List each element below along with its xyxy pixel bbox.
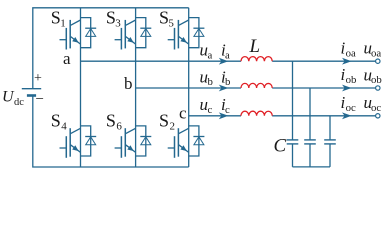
wire: capacitor neutral bus: [293, 166, 331, 168]
svg-text:oc: oc: [346, 102, 356, 114]
inductor L phase a: [241, 57, 272, 62]
wire: phase a line (right of inductor): [272, 60, 375, 62]
svg-text:S: S: [106, 110, 116, 130]
svg-text:ob: ob: [371, 74, 382, 86]
transistor S3 (IGBT): [115, 20, 136, 50]
svg-text:dc: dc: [14, 97, 24, 108]
svg-text:c: c: [179, 104, 187, 123]
transistor S6 (IGBT): [115, 128, 136, 158]
wire: inverter leg 3: [188, 8, 190, 167]
svg-text:c: c: [208, 104, 213, 116]
svg-text:a: a: [208, 49, 213, 61]
capacitor Ca: [287, 140, 299, 144]
svg-text:1: 1: [60, 17, 65, 29]
svg-text:2: 2: [170, 120, 176, 132]
svg-text:L: L: [249, 36, 261, 57]
arrow ia: [219, 58, 229, 65]
wire: capacitor Cb bottom lead: [309, 144, 311, 167]
wire: capacitor Ca bottom lead: [292, 144, 294, 167]
svg-text:S: S: [159, 110, 169, 130]
dc source Udc (battery): [22, 89, 41, 96]
svg-text:oa: oa: [346, 47, 356, 59]
inductor L phase b: [241, 83, 272, 88]
wire: inverter leg 2: [135, 8, 137, 167]
svg-text:a: a: [63, 49, 71, 68]
arrow ib: [219, 85, 229, 92]
wire: capacitor Cb top lead: [309, 88, 311, 140]
svg-text:6: 6: [116, 120, 122, 132]
wire: dc bus left, top rail: [33, 8, 189, 89]
wire: capacitor Cc bottom lead: [329, 144, 331, 167]
svg-text:b: b: [225, 76, 230, 88]
wire: phase c line (right of inductor): [272, 115, 375, 117]
diode D2 (antiparallel): [189, 126, 205, 156]
svg-text:oa: oa: [371, 47, 381, 59]
terminal uob: [376, 86, 380, 90]
diode D4 (antiparallel): [81, 126, 97, 156]
terminal uoc: [376, 114, 380, 118]
wire: phase b line (right of inductor): [272, 87, 375, 89]
svg-text:c: c: [225, 104, 230, 116]
wire: capacitor Cc top lead: [329, 116, 331, 140]
arrow ic: [219, 112, 229, 119]
svg-text:3: 3: [115, 17, 121, 29]
transistor S5 (IGBT): [168, 20, 189, 50]
diode D5 (antiparallel): [189, 18, 205, 48]
svg-text:4: 4: [61, 120, 67, 132]
terminal uoa: [376, 59, 380, 63]
transistor S1 (IGBT): [60, 20, 81, 50]
svg-text:+: +: [34, 71, 42, 86]
svg-text:S: S: [51, 110, 61, 130]
svg-text:ob: ob: [346, 74, 357, 86]
diode D3 (antiparallel): [136, 18, 152, 48]
wire: phase c line (left of inductor): [189, 115, 241, 117]
wire: capacitor Ca top lead: [292, 61, 294, 140]
diode D1 (antiparallel): [81, 18, 97, 48]
svg-text:5: 5: [168, 17, 174, 29]
wire: phase a line (left of inductor): [81, 60, 242, 62]
wire: phase b line (left of inductor): [136, 87, 241, 89]
svg-text:−: −: [36, 91, 44, 107]
transistor S4 (IGBT): [60, 128, 81, 158]
capacitor Cb: [304, 140, 316, 144]
wire: dc bus left bottom, bottom rail: [33, 96, 189, 168]
arrow ioc: [342, 112, 352, 119]
svg-text:C: C: [274, 136, 287, 157]
wire: inverter leg 1: [80, 8, 82, 167]
svg-text:b: b: [208, 76, 213, 88]
svg-text:oc: oc: [371, 102, 381, 114]
inductor L phase c: [241, 111, 272, 116]
svg-text:a: a: [225, 49, 230, 61]
arrow iob: [342, 85, 352, 92]
capacitor Cc: [324, 140, 336, 144]
diode D6 (antiparallel): [136, 126, 152, 156]
arrow ioa: [342, 58, 352, 65]
svg-text:b: b: [124, 74, 133, 93]
transistor S2 (IGBT): [168, 128, 189, 158]
